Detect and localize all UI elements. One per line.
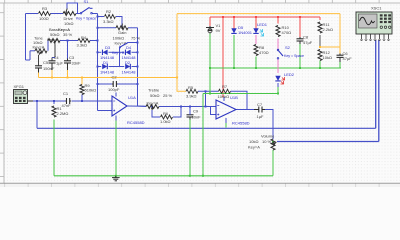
svg-text:75 %: 75 % xyxy=(131,36,141,41)
wire R3 to Drive pot xyxy=(51,13,64,15)
svg-text:Key = Space: Key = Space xyxy=(284,54,304,58)
wire C1 to U1A xyxy=(72,100,113,102)
svg-text:C2: C2 xyxy=(112,75,118,80)
svg-text:LED1: LED1 xyxy=(257,22,268,27)
svg-text:3.9kΩ: 3.9kΩ xyxy=(186,93,197,98)
capacitor C9 xyxy=(187,114,194,116)
svg-text:D2: D2 xyxy=(125,60,131,65)
wire node A vertical rail xyxy=(97,17,99,111)
svg-text:1N4148: 1N4148 xyxy=(122,70,137,75)
svg-text:LED2: LED2 xyxy=(284,72,295,77)
capacitor C3 xyxy=(64,60,71,62)
wire R11 bottom stub xyxy=(319,35,321,41)
function generator XFG1 xyxy=(14,90,28,104)
wire C9 bottom green xyxy=(189,120,191,176)
op-amp U1B xyxy=(216,100,236,119)
diode D3 xyxy=(103,50,108,55)
svg-text:1µF: 1µF xyxy=(257,114,265,119)
wire U1B power drop red xyxy=(222,17,224,97)
junction dots blue xyxy=(97,16,99,18)
wire volume wiper line xyxy=(277,141,379,143)
svg-text:47µF: 47µF xyxy=(303,40,313,45)
wire C2 row xyxy=(98,83,113,85)
svg-text:100kΩ: 100kΩ xyxy=(218,94,230,99)
svg-text:150nF: 150nF xyxy=(43,66,55,71)
svg-text:C8: C8 xyxy=(303,35,309,40)
resistor R10 xyxy=(276,26,280,37)
svg-text:C9: C9 xyxy=(193,109,199,114)
svg-text:RC4558D: RC4558D xyxy=(127,120,145,125)
svg-text:Key=A: Key=A xyxy=(147,101,159,106)
wire R10 top red xyxy=(277,17,279,24)
wire scope A drop xyxy=(36,101,38,128)
wire R1 top stub xyxy=(53,101,55,104)
wire top row R3 left xyxy=(26,13,39,15)
wire R12 top stub xyxy=(319,41,321,48)
wire gain row left xyxy=(98,27,117,29)
wire R7 right xyxy=(231,91,248,109)
potentiometer Drive xyxy=(63,12,76,16)
wire Drive wiper loop xyxy=(67,3,78,14)
svg-text:1.0kΩ: 1.0kΩ xyxy=(160,119,171,124)
svg-text:C7: C7 xyxy=(257,102,263,107)
svg-text:C5: C5 xyxy=(43,60,49,65)
wire scope A vertical xyxy=(375,40,377,128)
wire U1A power stub bottom xyxy=(115,116,117,121)
wire C3 stub yellow xyxy=(67,70,69,78)
wire bass wiper drop xyxy=(54,45,56,58)
resistor R5 xyxy=(186,89,198,93)
wire scope B vertical xyxy=(378,40,380,142)
svg-text:Key=A: Key=A xyxy=(58,27,70,32)
wire C6 bottom green xyxy=(339,62,341,68)
svg-text:RC4558D: RC4558D xyxy=(232,121,250,126)
svg-text:9V: 9V xyxy=(216,28,221,33)
svg-text:2.2MΩ: 2.2MΩ xyxy=(57,111,69,116)
wire diode row bottom xyxy=(98,66,102,68)
junction dots green xyxy=(209,67,211,69)
svg-text:Volume: Volume xyxy=(261,134,275,139)
wire C8 top red xyxy=(299,17,301,37)
resistor R12 xyxy=(318,50,322,61)
svg-text:33nF: 33nF xyxy=(72,61,82,66)
svg-text:10 %: 10 % xyxy=(262,139,272,144)
svg-text:D1: D1 xyxy=(103,60,109,65)
wire R8 bottom green xyxy=(255,57,257,69)
potentiometer Bass xyxy=(48,39,60,43)
wire R2 row left xyxy=(98,16,105,18)
svg-text:2.2kΩ: 2.2kΩ xyxy=(323,27,334,32)
wire U1A power stub top xyxy=(115,93,117,97)
wire ground rail upper green xyxy=(210,67,341,69)
wire LED1 top red xyxy=(255,17,257,29)
LED LED1 xyxy=(253,28,258,33)
wire R12 bottom green xyxy=(319,61,321,69)
diode D1 xyxy=(102,64,107,69)
wire D5 top red xyxy=(233,17,235,29)
wire R9 stub yellow xyxy=(81,78,83,85)
svg-text:Key=A: Key=A xyxy=(33,45,45,50)
wire vref rail yellow mid xyxy=(39,77,178,79)
svg-text:100Ω: 100Ω xyxy=(39,16,49,21)
svg-text:35 %: 35 % xyxy=(63,32,73,37)
wire vref divider yellow xyxy=(320,46,340,48)
svg-text:Key=A: Key=A xyxy=(248,145,260,150)
wire ground rail mid green xyxy=(203,93,278,95)
svg-text:R5: R5 xyxy=(188,85,194,90)
svg-text:25 %: 25 % xyxy=(163,93,173,98)
wire scope A horizontal xyxy=(37,127,376,129)
svg-text:1N4001: 1N4001 xyxy=(238,30,253,35)
switch S1 xyxy=(80,12,82,14)
wire U1A ground green xyxy=(115,121,117,176)
potentiometer Tone xyxy=(35,49,47,53)
capacitor C4 xyxy=(49,60,56,62)
wire Drive pot to S1 xyxy=(76,13,81,15)
svg-text:S2: S2 xyxy=(285,45,291,50)
capacitor C6 xyxy=(337,54,344,56)
svg-text:Treble: Treble xyxy=(148,88,160,93)
wire vref right vertical yellow xyxy=(339,14,341,54)
svg-text:470Ω: 470Ω xyxy=(259,50,269,55)
svg-text:R2: R2 xyxy=(106,9,112,14)
wire C5 stub yellow xyxy=(38,73,40,78)
resistor R9 xyxy=(80,85,84,95)
wire bass left post xyxy=(47,41,49,51)
diode D4 xyxy=(126,50,131,55)
sheet border left xyxy=(3,3,5,183)
svg-text:470Ω: 470Ω xyxy=(282,30,292,35)
wire R5 node drop xyxy=(205,91,207,106)
wire vref vertical yellow xyxy=(176,14,178,78)
svg-text:XFG1: XFG1 xyxy=(14,84,25,89)
svg-text:10kΩ: 10kΩ xyxy=(323,55,332,60)
diode D5 xyxy=(231,28,236,33)
wire D5 bottom green xyxy=(233,35,235,68)
wire input signal xyxy=(33,100,66,102)
wire ground rail bottom green xyxy=(54,175,273,177)
wire battery top stub xyxy=(209,17,211,26)
wire R1 bottom green xyxy=(53,120,55,176)
battery V1 xyxy=(206,27,214,29)
wire S1 to node xyxy=(92,13,98,15)
potentiometer Volume xyxy=(271,139,275,150)
LED LED2 xyxy=(275,76,280,81)
wire battery bottom green xyxy=(209,34,211,94)
resistor R1 xyxy=(52,106,56,117)
wire C8 bottom green xyxy=(299,44,301,68)
svg-text:10kΩ: 10kΩ xyxy=(64,21,73,26)
capacitor C5 xyxy=(35,65,42,67)
junction dots red xyxy=(222,16,224,18)
svg-text:XSC1: XSC1 xyxy=(371,6,382,11)
svg-text:D4: D4 xyxy=(126,45,132,50)
svg-text:510kΩ: 510kΩ xyxy=(85,88,97,93)
svg-text:47nF: 47nF xyxy=(62,103,72,108)
svg-text:3.3kΩ: 3.3kΩ xyxy=(77,43,88,48)
wire vref rail yellow top xyxy=(177,13,340,15)
wire R9 bias drop xyxy=(81,95,83,102)
wire U1A output xyxy=(127,105,147,107)
wire C4 stub yellow xyxy=(51,70,53,78)
svg-text:C4: C4 xyxy=(54,55,60,60)
potentiometer Gain xyxy=(116,26,128,30)
wire diode row top xyxy=(98,51,102,53)
svg-text:1µF: 1µF xyxy=(56,61,64,66)
svg-text:R3: R3 xyxy=(42,6,48,11)
wire U1B output xyxy=(236,109,254,111)
wire LED2 bottom xyxy=(277,83,279,87)
resistor R2 xyxy=(105,15,116,19)
capacitor C2 xyxy=(112,81,114,87)
svg-text:3.3kΩ: 3.3kΩ xyxy=(103,19,114,24)
diode D2 xyxy=(125,64,130,69)
wire treble row xyxy=(159,106,216,108)
op-amp U1A xyxy=(112,96,127,116)
capacitor C1 xyxy=(66,98,68,104)
wire volume bottom green xyxy=(272,150,274,176)
svg-text:R6: R6 xyxy=(163,111,169,116)
wire U1B power stub bottom xyxy=(225,118,227,123)
wire feedback row blue xyxy=(198,90,219,92)
junction dots yellow xyxy=(81,77,83,79)
svg-text:U1B: U1B xyxy=(230,95,238,100)
wire treble wiper to R6 xyxy=(152,110,160,117)
svg-text:D3: D3 xyxy=(105,45,111,50)
resistor R11 xyxy=(318,22,322,33)
wire input rail left vertical xyxy=(25,14,27,61)
potentiometer Treble xyxy=(146,105,159,109)
wire R10 bottom pink xyxy=(277,39,279,51)
wire LED1 bottom pink xyxy=(255,35,257,44)
switch S3 bypass xyxy=(119,48,121,53)
svg-text:47µF: 47µF xyxy=(343,56,353,61)
capacitor C8 xyxy=(297,38,304,40)
svg-text:100pF: 100pF xyxy=(108,87,120,92)
sheet border bottom xyxy=(0,182,400,184)
resistor R3 xyxy=(39,12,51,16)
svg-text:C3: C3 xyxy=(69,55,75,60)
svg-text:C1: C1 xyxy=(63,91,69,96)
wire diode middle rail xyxy=(119,52,121,66)
wire C7 to volume xyxy=(265,110,273,140)
resistor R7 xyxy=(219,89,231,93)
wire S2 bottom pink xyxy=(277,59,279,73)
wire +9V rail red xyxy=(210,16,320,18)
svg-text:10nF: 10nF xyxy=(192,115,202,120)
ground xyxy=(115,176,117,178)
svg-text:Key = Space: Key = Space xyxy=(76,16,96,20)
wire U1B lower input xyxy=(211,106,217,115)
wire R2 row right xyxy=(116,17,122,28)
svg-text:Key=A: Key=A xyxy=(47,37,59,42)
switch S2 xyxy=(277,49,279,51)
sheet border top xyxy=(0,2,400,4)
wire input rail bottom jog xyxy=(26,59,31,61)
svg-text:Gain: Gain xyxy=(118,30,126,35)
svg-text:S1: S1 xyxy=(84,0,90,4)
oscilloscope XSC1 xyxy=(356,12,392,34)
wire R6 up xyxy=(173,106,181,117)
svg-text:U1A: U1A xyxy=(128,95,136,100)
wire bass to C3 drop xyxy=(67,41,69,59)
wire green bus vertical xyxy=(202,94,204,176)
svg-text:10kΩ: 10kΩ xyxy=(249,139,258,144)
svg-text:50kΩ: 50kΩ xyxy=(150,93,159,98)
wire vref to R5 xyxy=(177,78,186,92)
wire gain row right xyxy=(128,27,138,29)
wire R4 row xyxy=(60,40,78,42)
resistor R6 xyxy=(161,115,173,119)
svg-text:R4: R4 xyxy=(81,35,87,40)
capacitor C7 xyxy=(258,107,260,113)
resistor R8 xyxy=(254,45,258,56)
svg-text:R7: R7 xyxy=(222,84,228,89)
resistor R4 xyxy=(78,39,90,43)
wire tone wiper drop xyxy=(38,55,40,66)
wire R11 top red xyxy=(319,17,321,20)
wire node to inverting input xyxy=(98,110,113,112)
wire output rail vertical xyxy=(137,28,139,106)
